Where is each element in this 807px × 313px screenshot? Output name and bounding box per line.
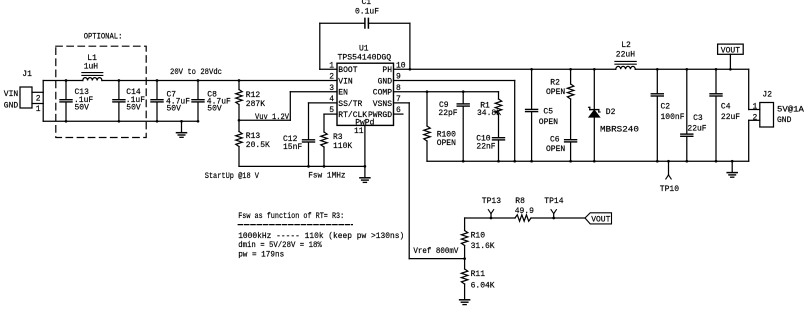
svg-text:6: 6 xyxy=(396,106,401,115)
svg-text:10: 10 xyxy=(396,61,406,70)
svg-text:50V: 50V xyxy=(167,104,182,113)
svg-text:287K: 287K xyxy=(246,100,265,109)
svg-text:VIN: VIN xyxy=(4,90,19,99)
svg-text:VIN: VIN xyxy=(338,77,353,86)
svg-text:22nF: 22nF xyxy=(476,143,495,152)
svg-text:R12: R12 xyxy=(246,91,261,100)
svg-text:9: 9 xyxy=(396,73,401,82)
svg-text:PH: PH xyxy=(382,66,392,75)
svg-text:PwPd: PwPd xyxy=(355,118,374,127)
svg-text:OPEN: OPEN xyxy=(546,88,565,97)
svg-text:11: 11 xyxy=(354,127,364,136)
svg-text:1: 1 xyxy=(329,61,334,70)
svg-text:R3: R3 xyxy=(333,133,343,142)
svg-text:C2: C2 xyxy=(661,103,671,112)
svg-text:VOUT: VOUT xyxy=(591,215,610,224)
svg-text:C5: C5 xyxy=(543,108,553,117)
svg-text:5V@1A: 5V@1A xyxy=(777,105,804,114)
svg-text:GND: GND xyxy=(378,77,393,86)
svg-text:1: 1 xyxy=(753,103,758,112)
svg-text:J2: J2 xyxy=(762,91,772,100)
svg-text:BOOT: BOOT xyxy=(338,66,357,75)
svg-text:C1: C1 xyxy=(362,0,372,7)
svg-text:EN: EN xyxy=(338,89,348,98)
svg-text:L2: L2 xyxy=(621,41,631,50)
svg-text:TP13: TP13 xyxy=(482,197,501,206)
svg-text:3: 3 xyxy=(329,84,334,93)
svg-text:2: 2 xyxy=(753,114,758,123)
svg-text:31.6K: 31.6K xyxy=(471,242,495,251)
svg-text:34.8K: 34.8K xyxy=(477,109,501,118)
svg-text:8: 8 xyxy=(396,84,401,93)
svg-text:50V: 50V xyxy=(207,104,222,113)
svg-text:Fsw 1MHz: Fsw 1MHz xyxy=(308,172,346,181)
svg-text:22uF: 22uF xyxy=(721,113,740,122)
svg-text:15nF: 15nF xyxy=(283,143,302,152)
svg-text:dmin = 5V/28V = 18%: dmin = 5V/28V = 18% xyxy=(238,241,322,250)
svg-text:1000kHz ----- 110k (keep pw >1: 1000kHz ----- 110k (keep pw >130ns) xyxy=(238,232,404,241)
svg-text:Fsw as function of RT= R3:: Fsw as function of RT= R3: xyxy=(238,212,344,221)
svg-text:5: 5 xyxy=(329,106,334,115)
svg-text:MBRS240: MBRS240 xyxy=(600,125,639,134)
svg-text:22uF: 22uF xyxy=(687,125,706,134)
svg-text:SS/TR: SS/TR xyxy=(338,100,362,109)
svg-text:20V to 28Vdc: 20V to 28Vdc xyxy=(170,68,222,77)
svg-text:50V: 50V xyxy=(126,103,141,112)
svg-text:22pF: 22pF xyxy=(438,109,457,118)
svg-text:R13: R13 xyxy=(246,132,261,141)
svg-text:1: 1 xyxy=(36,105,41,114)
svg-text:4: 4 xyxy=(329,95,334,104)
svg-text:0.1uF: 0.1uF xyxy=(355,8,379,17)
svg-text:R10: R10 xyxy=(471,231,486,240)
svg-text:C6: C6 xyxy=(550,136,560,145)
svg-text:TP14: TP14 xyxy=(544,197,563,206)
svg-text:J1: J1 xyxy=(22,70,32,79)
svg-text:VOUT: VOUT xyxy=(721,47,740,56)
svg-text:OPEN: OPEN xyxy=(437,139,456,148)
svg-text:GND: GND xyxy=(4,102,19,111)
svg-text:49.9: 49.9 xyxy=(515,207,534,216)
svg-text:TP10: TP10 xyxy=(660,185,679,194)
svg-text:2: 2 xyxy=(36,95,41,104)
svg-text:50V: 50V xyxy=(75,103,90,112)
svg-text:TPS54140DGQ: TPS54140DGQ xyxy=(338,53,392,62)
svg-text:C3: C3 xyxy=(693,114,703,123)
svg-text:OPEN: OPEN xyxy=(546,145,565,154)
svg-text:20.5K: 20.5K xyxy=(246,141,270,150)
svg-text:1uH: 1uH xyxy=(84,62,99,71)
svg-text:100nF: 100nF xyxy=(661,113,685,122)
svg-text:Vuv 1.2V: Vuv 1.2V xyxy=(255,113,289,122)
svg-text:R8: R8 xyxy=(515,197,525,206)
svg-text:OPTIONAL:: OPTIONAL: xyxy=(84,32,123,41)
svg-text:D2: D2 xyxy=(606,108,616,117)
svg-text:C4: C4 xyxy=(721,103,731,112)
svg-text:R11: R11 xyxy=(471,270,486,279)
svg-text:U1: U1 xyxy=(359,45,369,54)
svg-text:pw = 179ns: pw = 179ns xyxy=(238,251,284,260)
svg-text:110K: 110K xyxy=(333,142,352,151)
svg-text:6.04K: 6.04K xyxy=(471,281,495,290)
svg-text:2: 2 xyxy=(329,73,334,82)
svg-text:7: 7 xyxy=(396,95,401,104)
svg-text:GND: GND xyxy=(777,116,792,125)
svg-text:Vref 800mV: Vref 800mV xyxy=(413,247,458,256)
svg-text:COMP: COMP xyxy=(373,89,392,98)
svg-text:StartUp @18 V: StartUp @18 V xyxy=(205,172,259,181)
svg-text:R2: R2 xyxy=(550,79,560,88)
svg-text:22uH: 22uH xyxy=(616,50,635,59)
svg-text:VSNS: VSNS xyxy=(373,100,392,109)
svg-text:OPEN: OPEN xyxy=(539,118,558,127)
